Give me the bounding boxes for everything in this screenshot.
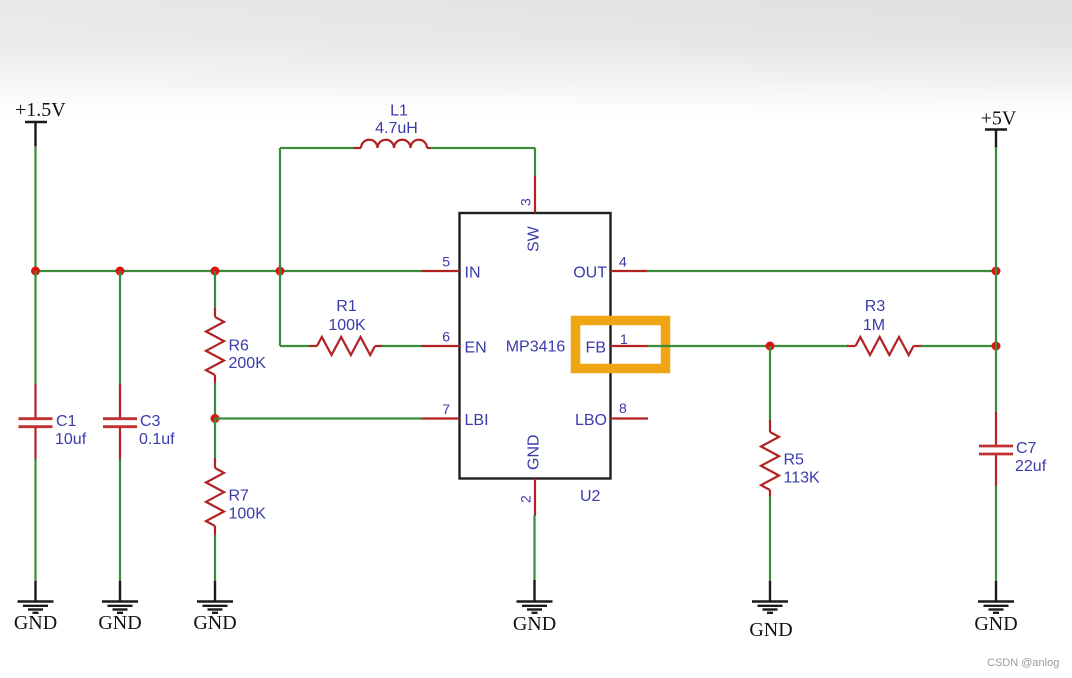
svg-text:GND: GND	[14, 612, 57, 634]
ground GND4 (IC)	[513, 515, 556, 635]
svg-text:8: 8	[619, 400, 627, 416]
junction node at C1 top	[31, 267, 40, 276]
svg-text:C1: C1	[56, 413, 77, 430]
wire R6 upper lead	[214, 271, 216, 309]
wire FB to R3	[647, 345, 848, 347]
resistor R1	[309, 337, 383, 355]
svg-text:GND: GND	[513, 613, 556, 635]
pin 6 EN stub	[421, 345, 460, 347]
wire output node to divider node	[995, 271, 997, 346]
junction node +5V/OUT	[992, 267, 1001, 276]
svg-text:200K: 200K	[229, 355, 267, 372]
svg-text:7: 7	[442, 401, 450, 417]
capacitor C7	[979, 412, 1013, 487]
wire main input bus	[36, 270, 422, 272]
wire R1 riser	[279, 271, 281, 346]
pin 1 FB stub	[611, 345, 649, 347]
wire C7 lower	[995, 486, 997, 582]
wire R1 left	[280, 345, 310, 347]
svg-text:MP3416: MP3416	[506, 339, 566, 356]
wire C1 lower lead	[34, 459, 36, 582]
svg-text:4: 4	[619, 254, 627, 270]
svg-text:113K: 113K	[784, 470, 821, 487]
capacitor C3	[103, 384, 137, 460]
wire C3 upper lead	[119, 271, 121, 385]
junction node FB/R5	[766, 342, 775, 351]
svg-text:100K: 100K	[229, 506, 267, 523]
resistor R5	[761, 420, 779, 497]
svg-text:+1.5V: +1.5V	[15, 99, 66, 121]
svg-text:1: 1	[620, 331, 628, 347]
svg-text:10uf: 10uf	[55, 431, 87, 448]
wire OUT to +5V node	[647, 270, 996, 272]
svg-text:C7: C7	[1016, 440, 1037, 457]
svg-text:GND: GND	[526, 434, 543, 470]
svg-text:R3: R3	[865, 298, 886, 315]
junction node at C3 top	[116, 267, 125, 276]
svg-text:0.1uf: 0.1uf	[139, 431, 175, 448]
pin 8 LBO stub	[611, 417, 649, 419]
svg-text:CSDN @anlog: CSDN @anlog	[987, 657, 1059, 669]
wire R1 right	[382, 345, 421, 347]
svg-text:C3: C3	[140, 413, 161, 430]
wire R7 lower lead	[214, 535, 216, 582]
svg-text:3: 3	[518, 198, 534, 206]
svg-text:LBO: LBO	[575, 412, 607, 429]
junction node at R6 top	[211, 267, 220, 276]
svg-text:R5: R5	[784, 452, 805, 469]
power symbol +5V	[981, 108, 1017, 149]
pin 7 LBI stub	[421, 417, 460, 419]
power symbol +1.5V	[15, 99, 66, 147]
svg-text:GND: GND	[749, 619, 792, 641]
svg-text:U2: U2	[580, 488, 601, 505]
wire divider node to C7	[995, 346, 997, 413]
wire R5 upper	[769, 346, 771, 421]
svg-text:1M: 1M	[863, 317, 885, 334]
junction node output/FB divider	[992, 342, 1001, 351]
svg-text:22uf: 22uf	[1015, 458, 1047, 475]
capacitor C1	[19, 384, 53, 460]
wire R5 lower	[769, 496, 771, 582]
svg-text:EN: EN	[465, 340, 487, 357]
op-amp U2 MP3416 body	[460, 213, 611, 479]
svg-text:4.7uH: 4.7uH	[375, 120, 418, 137]
ground GND5	[749, 581, 792, 641]
svg-text:FB: FB	[586, 340, 606, 357]
svg-text:SW: SW	[526, 225, 543, 252]
svg-text:5: 5	[442, 254, 450, 270]
inductor L1	[354, 140, 432, 148]
ground GND1	[14, 581, 57, 634]
svg-text:L1: L1	[390, 103, 408, 120]
svg-text:LBI: LBI	[465, 412, 489, 429]
pin 2 GND stub	[534, 479, 536, 517]
svg-text:OUT: OUT	[573, 265, 607, 282]
wire L1 left horizontal	[280, 147, 355, 149]
wire C1 upper lead	[34, 271, 36, 385]
wire R6 to LBI node	[214, 383, 216, 419]
wire LBI horizontal	[215, 417, 421, 419]
wire L1 right horizontal	[431, 147, 536, 149]
resistor R6	[206, 308, 224, 384]
svg-text:GND: GND	[974, 613, 1017, 635]
wire L1 riser	[279, 148, 281, 271]
wire R3 to output node	[921, 345, 996, 347]
svg-text:R1: R1	[336, 298, 357, 315]
junction node at L1 branch	[276, 267, 285, 276]
svg-text:6: 6	[442, 329, 450, 345]
svg-text:+5V: +5V	[981, 108, 1017, 130]
ground GND6	[974, 581, 1017, 635]
junction node LBI	[211, 414, 220, 423]
pin 3 SW stub	[534, 176, 536, 213]
wire SW drop	[534, 148, 536, 177]
svg-text:R7: R7	[229, 488, 250, 505]
svg-text:GND: GND	[193, 612, 236, 634]
svg-text:R6: R6	[229, 338, 250, 355]
pin 5 IN stub	[421, 270, 460, 272]
wire +1.5V vertical drop	[34, 146, 36, 271]
svg-text:2: 2	[518, 495, 534, 503]
svg-text:100K: 100K	[328, 317, 366, 334]
pin 4 OUT stub	[611, 270, 649, 272]
ground GND2	[98, 581, 141, 634]
ground GND3	[193, 581, 236, 634]
highlight box around FB pin	[576, 321, 666, 369]
resistor R3	[847, 337, 922, 355]
svg-text:IN: IN	[465, 265, 481, 282]
svg-text:GND: GND	[98, 612, 141, 634]
wire R7 upper lead	[214, 419, 216, 460]
wire C3 lower lead	[119, 459, 121, 582]
wire +5V drop	[995, 147, 997, 271]
resistor R7	[206, 458, 224, 536]
